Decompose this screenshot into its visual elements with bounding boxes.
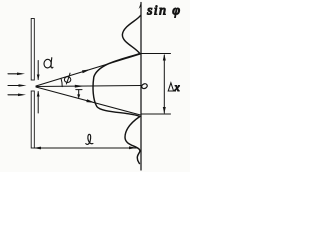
screen axis — [140, 3, 142, 171]
central ray arrowhead — [75, 85, 84, 88]
slit plate lower half — [31, 91, 34, 148]
label a — [44, 58, 53, 68]
slit width dimension line lower — [37, 92, 39, 114]
distance dimension line l — [34, 147, 137, 149]
upper diffracted ray — [36, 54, 141, 86]
incident wave arrow 3 — [8, 94, 22, 96]
delta-x upper tick — [141, 53, 171, 55]
upper ray arrowhead — [82, 69, 91, 73]
angle arc phi — [61, 78, 62, 86]
label phi — [64, 73, 70, 84]
lower diffracted ray — [36, 87, 141, 115]
intensity curve — [93, 16, 140, 164]
incident wave arrow 1 — [8, 73, 21, 75]
axis top arrow barb — [139, 3, 141, 10]
delta-x dimension arrow — [163, 55, 165, 113]
label delta x — [168, 83, 173, 91]
central ray — [36, 86, 141, 87]
slit plate upper half — [31, 19, 34, 81]
slit width dimension line upper — [37, 61, 39, 80]
svg-text:x: x — [174, 82, 181, 94]
small arrow marker onto lower ray — [76, 90, 82, 95]
lower ray arrowhead — [86, 99, 95, 103]
incident wave arrow 2 — [8, 85, 22, 87]
label 0 at screen centre — [141, 83, 148, 90]
svg-text:sin φ: sin φ — [147, 4, 181, 19]
delta-x lower tick — [141, 113, 171, 115]
label l — [86, 134, 93, 144]
